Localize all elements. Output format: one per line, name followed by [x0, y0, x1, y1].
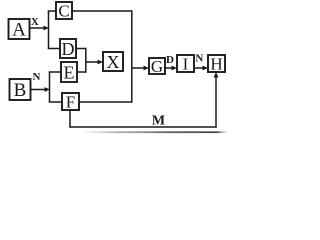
box X	[103, 52, 123, 72]
box C	[56, 2, 72, 21]
main collector vertical	[131, 10, 133, 102]
arrow DE collector to X	[86, 60, 103, 65]
wire A to junction, arrow	[30, 26, 50, 31]
svg-text:I: I	[183, 55, 189, 74]
wire junction to C	[48, 10, 56, 12]
svg-text:E: E	[64, 63, 75, 83]
svg-text:B: B	[14, 80, 27, 101]
wire up to H, arrow	[214, 72, 219, 128]
wire junction to F	[49, 101, 62, 103]
wire F to main collector	[79, 101, 133, 103]
box H	[208, 55, 225, 74]
wire D to DE collector	[76, 48, 87, 50]
svg-text:M: M	[152, 114, 165, 129]
arrow I to H	[194, 66, 208, 71]
svg-text:A: A	[12, 20, 26, 41]
svg-text:X: X	[31, 16, 39, 28]
arrow G to I	[165, 66, 177, 71]
svg-text:D: D	[166, 54, 174, 66]
wire bottom M horizontal	[69, 126, 216, 128]
svg-text:F: F	[66, 93, 75, 112]
box G	[149, 57, 165, 76]
svg-text:C: C	[58, 2, 69, 21]
box E	[61, 62, 77, 83]
svg-text:X: X	[107, 52, 120, 72]
junction vertical (B branch)	[49, 72, 51, 103]
box F	[62, 93, 79, 112]
wire junction to D	[48, 48, 60, 50]
arrow main collector to G	[132, 66, 149, 71]
box D	[60, 39, 76, 59]
svg-text:N: N	[195, 53, 203, 65]
wire F down	[69, 110, 71, 128]
svg-text:G: G	[151, 57, 163, 76]
wire C to main collector	[72, 10, 133, 12]
svg-text:H: H	[210, 55, 222, 74]
svg-text:D: D	[62, 39, 75, 59]
box I	[177, 55, 194, 74]
DE collector vertical	[85, 48, 87, 73]
box B	[10, 79, 31, 101]
wire B to junction, arrow	[31, 87, 51, 92]
wire E to DE collector	[77, 71, 87, 73]
svg-text:N: N	[33, 71, 41, 83]
wire junction to E	[49, 71, 61, 73]
box A	[9, 19, 30, 41]
junction vertical (A branch)	[48, 11, 50, 50]
